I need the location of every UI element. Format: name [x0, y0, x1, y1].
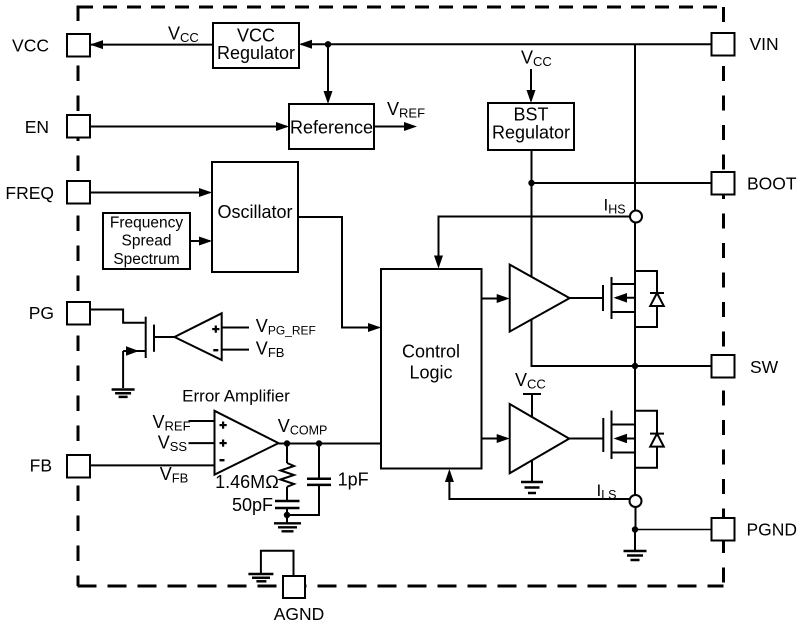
- wire LS driver output to gate: [569, 438, 603, 440]
- svg-text:VPG_REF: VPG_REF: [256, 316, 316, 338]
- wire LS driver to ground: [531, 461, 533, 482]
- wire junction down to Reference: [327, 44, 329, 100]
- block Reference: [289, 104, 374, 149]
- node ILS sense circle: [630, 495, 642, 507]
- svg-text:VCC: VCC: [168, 24, 199, 46]
- svg-text:Reference: Reference: [290, 117, 373, 137]
- svg-text:BST: BST: [513, 105, 548, 125]
- svg-text:VFB: VFB: [256, 339, 285, 361]
- svg-text:IHS: IHS: [604, 196, 626, 217]
- svg-text:Error Amplifier: Error Amplifier: [182, 387, 290, 406]
- wire EN pin to Reference: [89, 126, 287, 128]
- svg-text:PG: PG: [29, 303, 54, 323]
- svg-text:Frequency: Frequency: [110, 215, 183, 232]
- op-amp LS gate driver: [510, 404, 570, 473]
- svg-text:1pF: 1pF: [338, 470, 369, 490]
- arrowhead into Oscillator (FSS): [199, 237, 212, 246]
- pin FREQ: [67, 181, 90, 204]
- svg-text:EN: EN: [25, 117, 49, 137]
- svg-text:BOOT: BOOT: [747, 174, 797, 194]
- arrowhead into VCC pin: [90, 40, 103, 49]
- svg-text:VREF: VREF: [153, 412, 191, 434]
- transistor HS MOSFET: [603, 277, 635, 319]
- pin PG: [67, 302, 90, 325]
- IC boundary dashed border left: [77, 6, 80, 587]
- ground PG MOSFET: [112, 390, 135, 397]
- arrowhead into LS driver: [497, 434, 510, 443]
- transistor PG MOSFET: [123, 317, 154, 358]
- svg-text:VCOMP: VCOMP: [278, 416, 328, 438]
- wire VCC Regulator to VCC pin: [91, 44, 213, 46]
- arrowhead into Control Logic bottom: [445, 469, 454, 482]
- node IHS sense circle: [630, 211, 642, 223]
- block BST Regulator: [488, 103, 574, 150]
- transistor LS MOSFET: [603, 411, 635, 460]
- wire HS driver low side to SW: [532, 320, 713, 366]
- svg-text:SW: SW: [750, 357, 779, 377]
- svg-text:VREF: VREF: [387, 99, 425, 121]
- svg-text:FREQ: FREQ: [5, 183, 54, 203]
- svg-text:AGND: AGND: [274, 604, 325, 624]
- wire VCC to LS driver: [531, 394, 533, 417]
- diode LS body diode: [635, 411, 664, 468]
- svg-text:FB: FB: [30, 456, 52, 476]
- ground LS driver: [521, 482, 543, 493]
- wire VIN rail to VCC Regulator: [301, 43, 712, 45]
- wire BST Regulator down to BOOT node: [531, 150, 533, 276]
- pin VIN: [712, 33, 735, 56]
- wire VREF input lead: [189, 420, 215, 422]
- wire SW rail down to ILS: [634, 366, 636, 496]
- wire VFB input lead (comparator): [222, 349, 249, 351]
- power VCC tap bar: [523, 393, 541, 395]
- wire PG MOSFET source to ground: [122, 351, 124, 388]
- node BOOT junction: [528, 180, 534, 186]
- svg-text:VCC: VCC: [515, 370, 546, 392]
- resistor 1.46M: [281, 444, 295, 501]
- svg-text:Regulator: Regulator: [492, 123, 570, 143]
- pin SW: [712, 355, 735, 378]
- wire VSS input lead: [189, 442, 215, 444]
- pin FB: [67, 455, 90, 478]
- node PGND junction: [632, 526, 638, 532]
- IC boundary dashed border right: [722, 7, 725, 586]
- svg-text:50pF: 50pF: [232, 495, 273, 515]
- block Control Logic: [381, 269, 482, 469]
- ground compensation network: [274, 515, 301, 531]
- node SW junction: [632, 363, 638, 369]
- capacitor 50pF: [275, 501, 300, 515]
- wire IHS to Control Logic: [439, 217, 631, 267]
- ground AGND symbol: [248, 574, 273, 581]
- block Frequency Spread Spectrum: [103, 213, 190, 269]
- wire Reference output VREF: [374, 126, 413, 128]
- wire VCC into BST Regulator: [530, 69, 532, 99]
- svg-text:VFB: VFB: [160, 464, 189, 486]
- wire ILS to Control Logic: [449, 472, 630, 500]
- arrowhead into VCC Regulator right edge: [299, 40, 312, 49]
- wire Oscillator output to Control Logic: [298, 217, 379, 328]
- wire PGND node to PGND pin: [635, 529, 712, 531]
- svg-text:Regulator: Regulator: [217, 43, 295, 63]
- op-amp HS gate driver: [510, 265, 570, 332]
- svg-text:Spread: Spread: [122, 233, 172, 250]
- svg-text:PGND: PGND: [747, 520, 798, 540]
- wire Frequency Spread Spectrum to Oscillator: [190, 240, 210, 242]
- pin AGND: [283, 576, 305, 598]
- pin EN: [67, 115, 90, 138]
- svg-text:Oscillator: Oscillator: [217, 202, 292, 222]
- wire FB pin to error amp: [89, 464, 215, 466]
- wire Control Logic to HS driver: [482, 298, 507, 300]
- block Oscillator: [212, 162, 298, 272]
- svg-text:Control: Control: [402, 341, 460, 361]
- wire PG comparator output to gate: [154, 336, 175, 338]
- arrowhead into Reference left edge: [276, 122, 289, 131]
- pin VCC: [67, 34, 90, 57]
- block VCC Regulator: [213, 23, 299, 68]
- arrowhead into HS driver: [497, 294, 510, 303]
- arrowhead into Oscillator (FREQ): [199, 188, 212, 197]
- wire PG pin to PG MOSFET drain: [89, 310, 145, 323]
- arrowhead into Reference top: [324, 91, 333, 104]
- wire PGND node to ground: [634, 530, 636, 551]
- node compensation ground junction: [284, 512, 290, 518]
- op-amp PG comparator: [175, 313, 222, 360]
- wire BOOT node to BOOT pin: [532, 182, 713, 184]
- node VCOMP junction: [284, 440, 290, 446]
- IC boundary dashed border top: [79, 6, 724, 9]
- IC boundary dashed border bottom: [78, 585, 724, 588]
- arrowhead into Control Logic left (osc): [368, 323, 381, 332]
- ground power ground: [624, 551, 647, 560]
- svg-text:Spectrum: Spectrum: [113, 251, 179, 268]
- wire error amp output to Control Logic: [279, 443, 382, 445]
- wire HS driver output to gate: [570, 297, 603, 299]
- svg-text:VSS: VSS: [158, 432, 188, 454]
- wire FREQ pin to Oscillator: [89, 192, 210, 194]
- pin PGND: [712, 518, 735, 541]
- wire VPG_REF input lead: [222, 327, 249, 329]
- svg-text:VCC: VCC: [521, 48, 552, 70]
- wire AGND bracket: [261, 551, 294, 576]
- node 1pF junction: [316, 440, 322, 446]
- svg-text:VIN: VIN: [750, 34, 779, 54]
- wire VIN rail down (drain rail): [634, 44, 636, 366]
- svg-text:1.46MΩ: 1.46MΩ: [215, 472, 279, 492]
- node junction at VCC line: [325, 41, 331, 47]
- svg-text:VCC: VCC: [12, 36, 49, 56]
- capacitor 1pF: [287, 444, 331, 516]
- svg-text:Logic: Logic: [409, 363, 452, 383]
- pin BOOT: [712, 172, 735, 195]
- arrowhead VREF output: [404, 122, 417, 131]
- op-amp error amplifier U1: [215, 411, 279, 475]
- diode HS body diode: [635, 271, 664, 327]
- arrowhead into Control Logic top: [434, 256, 443, 269]
- wire Control Logic to LS driver: [482, 438, 507, 440]
- arrowhead into BST Regulator top: [527, 90, 536, 103]
- wire ILS down to PGND node: [635, 507, 637, 530]
